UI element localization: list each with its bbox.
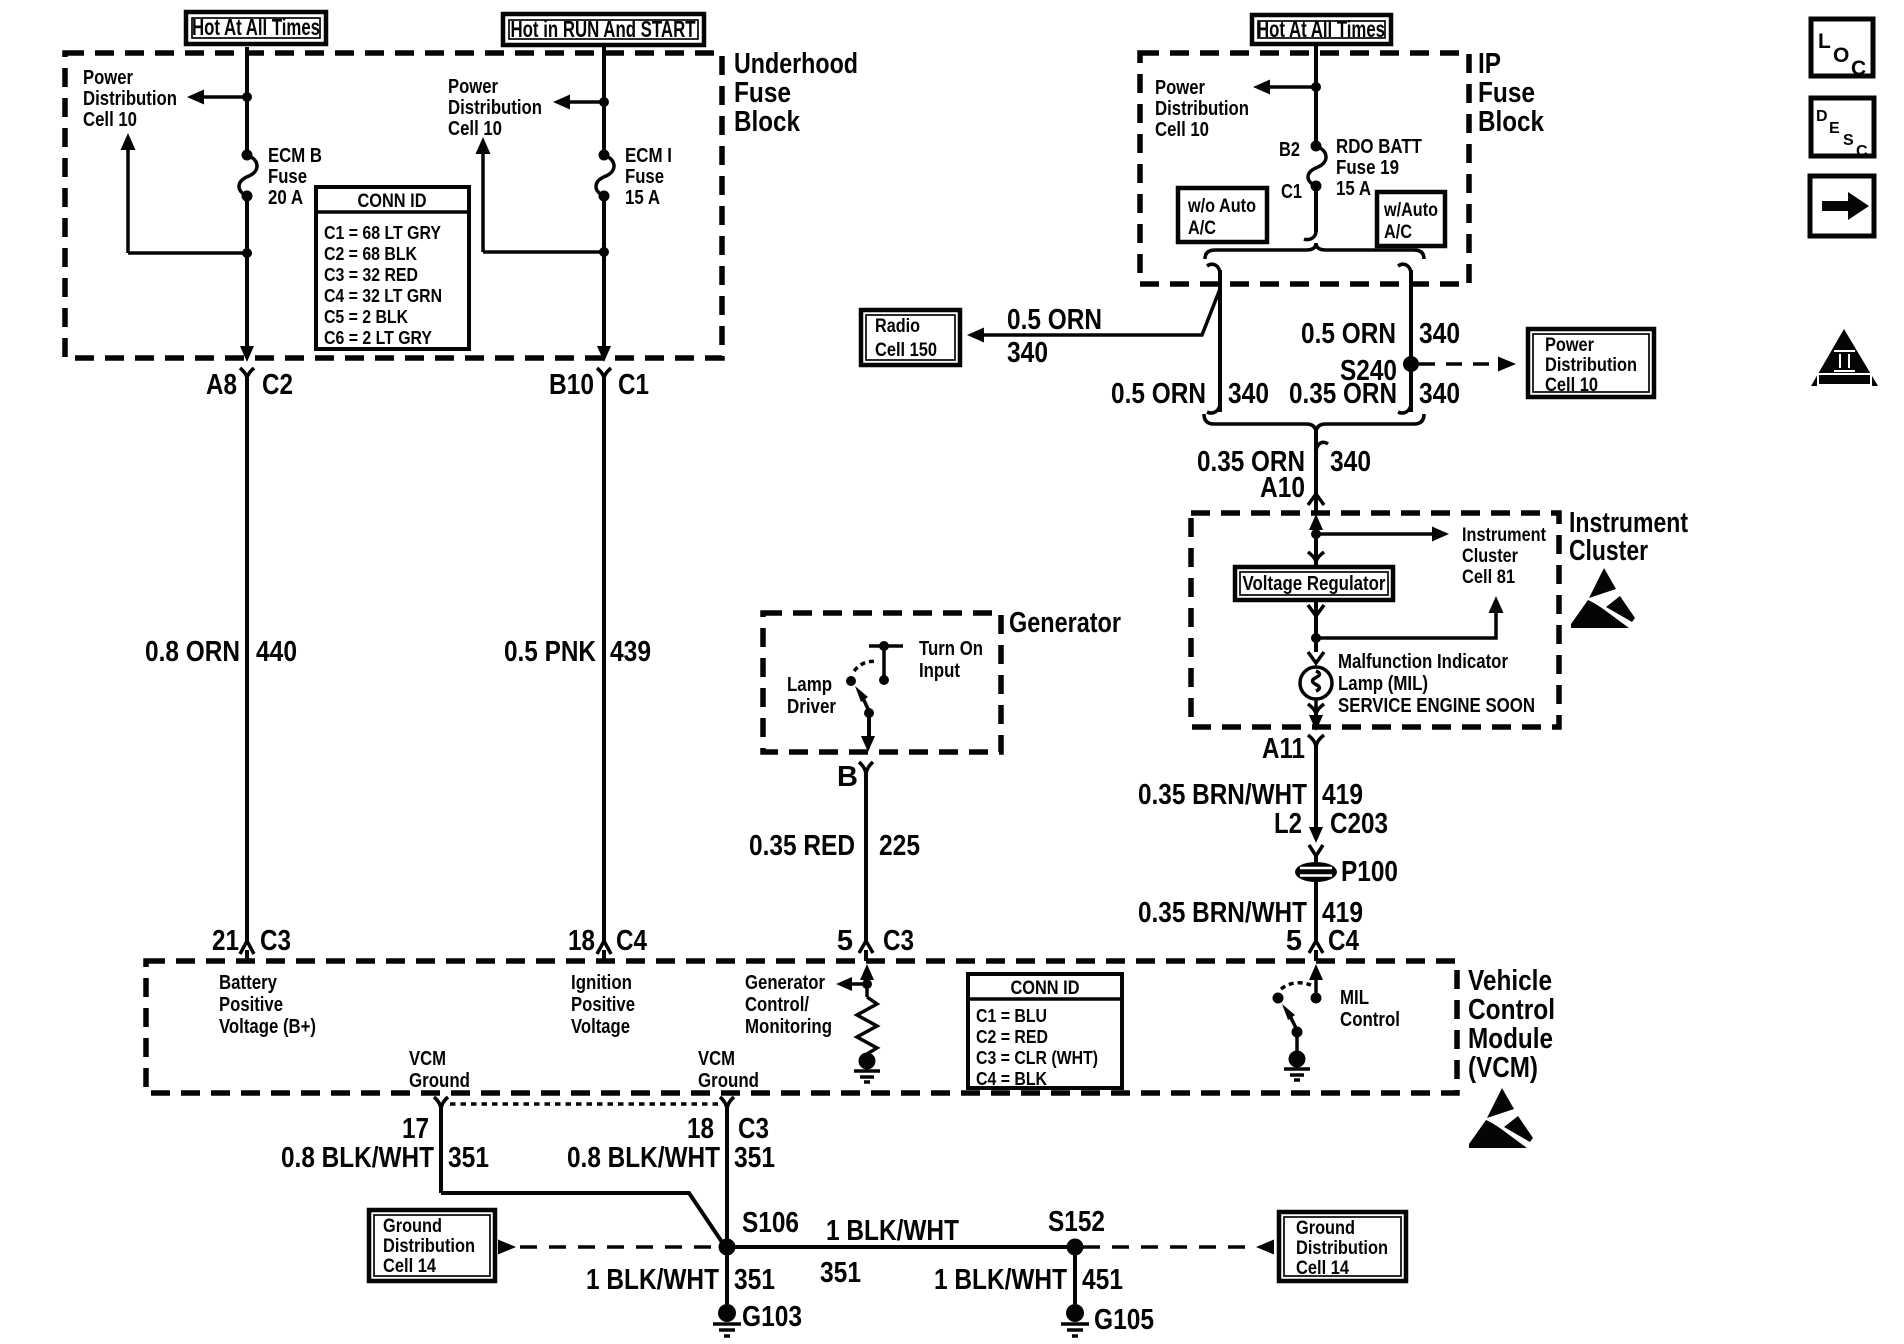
svg-text:0.5 ORN: 0.5 ORN <box>1111 378 1206 410</box>
svg-text:G105: G105 <box>1094 1304 1154 1336</box>
svg-text:15 A: 15 A <box>625 187 660 209</box>
svg-text:Module: Module <box>1468 1023 1553 1055</box>
svg-text:17: 17 <box>402 1113 429 1145</box>
svg-text:C3: C3 <box>738 1113 769 1145</box>
svg-text:CONN ID: CONN ID <box>1011 978 1080 999</box>
svg-text:Cell 10: Cell 10 <box>1545 375 1598 396</box>
svg-text:S106: S106 <box>742 1207 799 1239</box>
svg-text:Hot At All Times: Hot At All Times <box>192 14 320 40</box>
svg-text:C6 = 2 LT GRY: C6 = 2 LT GRY <box>324 328 432 348</box>
svg-text:Distribution: Distribution <box>83 88 177 110</box>
svg-text:Hot in RUN And START: Hot in RUN And START <box>511 16 696 42</box>
svg-text:1 BLK/WHT: 1 BLK/WHT <box>934 1264 1067 1296</box>
svg-text:A10: A10 <box>1260 472 1305 504</box>
svg-text:Voltage (B+): Voltage (B+) <box>219 1016 316 1038</box>
svg-text:B10: B10 <box>549 369 594 401</box>
svg-text:Distribution: Distribution <box>448 97 542 119</box>
svg-text:21: 21 <box>212 925 239 957</box>
svg-text:C4: C4 <box>616 925 647 957</box>
svg-text:439: 439 <box>610 636 651 668</box>
svg-text:C4 = 32 LT GRN: C4 = 32 LT GRN <box>324 286 442 306</box>
svg-text:Control: Control <box>1340 1009 1400 1031</box>
svg-text:419: 419 <box>1322 779 1363 811</box>
svg-text:Power: Power <box>448 76 498 98</box>
svg-text:Turn On: Turn On <box>919 638 983 660</box>
svg-text:5: 5 <box>837 925 853 957</box>
svg-text:Hot At All Times: Hot At All Times <box>1257 16 1385 42</box>
svg-text:Cell 81: Cell 81 <box>1462 567 1515 588</box>
svg-text:C3 = CLR (WHT): C3 = CLR (WHT) <box>976 1048 1098 1068</box>
svg-text:Voltage Regulator: Voltage Regulator <box>1243 573 1386 595</box>
svg-text:(VCM): (VCM) <box>1468 1052 1538 1084</box>
svg-text:MIL: MIL <box>1340 987 1369 1009</box>
svg-text:Generator: Generator <box>745 972 825 994</box>
svg-text:340: 340 <box>1419 378 1460 410</box>
svg-text:20 A: 20 A <box>268 187 303 209</box>
svg-text:w/o Auto: w/o Auto <box>1187 196 1256 217</box>
svg-text:Fuse: Fuse <box>625 166 664 188</box>
svg-text:Battery: Battery <box>219 972 278 994</box>
svg-text:C203: C203 <box>1330 808 1388 840</box>
svg-text:351: 351 <box>734 1142 775 1174</box>
svg-text:Block: Block <box>734 106 801 138</box>
svg-text:225: 225 <box>879 830 920 862</box>
svg-text:Lamp: Lamp <box>787 674 832 696</box>
svg-text:0.35 BRN/WHT: 0.35 BRN/WHT <box>1138 897 1307 929</box>
svg-text:Cell 150: Cell 150 <box>875 340 937 361</box>
svg-text:Distribution: Distribution <box>1155 98 1249 120</box>
svg-text:Power: Power <box>1545 335 1595 356</box>
svg-text:Vehicle: Vehicle <box>1468 965 1552 997</box>
svg-text:351: 351 <box>734 1264 775 1296</box>
svg-text:5: 5 <box>1286 925 1302 957</box>
svg-text:Distribution: Distribution <box>1545 355 1637 376</box>
svg-text:Cell 14: Cell 14 <box>383 1256 436 1277</box>
svg-text:CONN ID: CONN ID <box>358 191 427 212</box>
svg-text:351: 351 <box>820 1257 861 1289</box>
svg-text:351: 351 <box>448 1142 489 1174</box>
svg-text:Distribution: Distribution <box>1296 1238 1388 1259</box>
svg-text:SERVICE ENGINE SOON: SERVICE ENGINE SOON <box>1338 695 1535 717</box>
svg-text:Generator: Generator <box>1009 607 1121 639</box>
svg-text:O: O <box>1833 44 1849 67</box>
svg-text:Cell 10: Cell 10 <box>83 109 137 131</box>
svg-text:A8: A8 <box>206 369 237 401</box>
svg-text:340: 340 <box>1330 446 1371 478</box>
svg-text:Fuse: Fuse <box>1478 77 1535 109</box>
svg-text:Fuse: Fuse <box>734 77 791 109</box>
svg-text:Monitoring: Monitoring <box>745 1016 832 1038</box>
svg-text:Fuse 19: Fuse 19 <box>1336 157 1399 179</box>
svg-text:0.5 ORN: 0.5 ORN <box>1301 318 1396 350</box>
svg-text:Cluster: Cluster <box>1462 546 1519 567</box>
svg-text:1 BLK/WHT: 1 BLK/WHT <box>826 1215 959 1247</box>
svg-text:18: 18 <box>568 925 595 957</box>
svg-text:Ground: Ground <box>383 1216 442 1237</box>
svg-text:Positive: Positive <box>219 994 283 1016</box>
svg-text:Cluster: Cluster <box>1569 535 1648 567</box>
svg-text:S152: S152 <box>1048 1206 1105 1238</box>
svg-text:0.35 RED: 0.35 RED <box>749 830 855 862</box>
svg-text:A11: A11 <box>1262 733 1305 765</box>
svg-text:Instrument: Instrument <box>1462 525 1547 546</box>
svg-text:C3 = 32 RED: C3 = 32 RED <box>324 265 418 285</box>
svg-text:0.5 PNK: 0.5 PNK <box>504 636 596 668</box>
svg-text:Ground: Ground <box>1296 1218 1355 1239</box>
svg-text:E: E <box>1829 120 1840 137</box>
svg-text:IP: IP <box>1478 48 1501 80</box>
svg-text:Power: Power <box>83 67 133 89</box>
svg-text:P100: P100 <box>1341 856 1398 888</box>
svg-text:Cell 10: Cell 10 <box>448 118 502 140</box>
svg-text:Ignition: Ignition <box>571 972 632 994</box>
svg-text:440: 440 <box>256 636 297 668</box>
svg-text:C1 = BLU: C1 = BLU <box>976 1006 1047 1026</box>
svg-text:C1: C1 <box>618 369 649 401</box>
svg-text:0.35 ORN: 0.35 ORN <box>1289 378 1397 410</box>
svg-text:C: C <box>1851 57 1866 80</box>
svg-text:C: C <box>1856 143 1868 160</box>
svg-text:15 A: 15 A <box>1336 178 1371 200</box>
svg-text:Lamp (MIL): Lamp (MIL) <box>1338 673 1428 695</box>
svg-text:451: 451 <box>1082 1264 1123 1296</box>
svg-text:Fuse: Fuse <box>268 166 307 188</box>
svg-text:Cell 14: Cell 14 <box>1296 1258 1349 1279</box>
svg-text:C5 = 2 BLK: C5 = 2 BLK <box>324 307 408 327</box>
svg-text:C3: C3 <box>260 925 291 957</box>
svg-text:Control/: Control/ <box>745 994 809 1016</box>
svg-text:w/Auto: w/Auto <box>1383 200 1438 221</box>
svg-text:340: 340 <box>1419 318 1460 350</box>
svg-text:Power: Power <box>1155 77 1205 99</box>
svg-text:Positive: Positive <box>571 994 635 1016</box>
svg-text:Cell 10: Cell 10 <box>1155 119 1209 141</box>
svg-text:0.35 BRN/WHT: 0.35 BRN/WHT <box>1138 779 1307 811</box>
svg-text:OBD II: OBD II <box>1823 375 1865 387</box>
svg-text:VCM: VCM <box>698 1048 735 1070</box>
svg-text:B: B <box>837 761 858 793</box>
svg-text:B2: B2 <box>1279 139 1300 161</box>
svg-text:Ground: Ground <box>698 1070 759 1092</box>
svg-text:C1 = 68 LT GRY: C1 = 68 LT GRY <box>324 223 441 243</box>
svg-text:Underhood: Underhood <box>734 48 858 80</box>
svg-text:S: S <box>1843 132 1854 149</box>
svg-text:0.5 ORN: 0.5 ORN <box>1007 304 1102 336</box>
svg-text:C4 = BLK: C4 = BLK <box>976 1069 1047 1089</box>
svg-text:G103: G103 <box>742 1301 802 1333</box>
svg-text:L: L <box>1818 30 1831 53</box>
svg-text:C4: C4 <box>1328 925 1359 957</box>
svg-text:ECM B: ECM B <box>268 145 322 167</box>
svg-text:C3: C3 <box>883 925 914 957</box>
svg-text:Block: Block <box>1478 106 1545 138</box>
svg-text:18: 18 <box>687 1113 714 1145</box>
svg-text:RDO BATT: RDO BATT <box>1336 136 1422 158</box>
svg-text:340: 340 <box>1228 378 1269 410</box>
svg-text:Ground: Ground <box>409 1070 470 1092</box>
svg-text:A/C: A/C <box>1188 218 1216 239</box>
svg-text:340: 340 <box>1007 337 1048 369</box>
svg-text:0.8 ORN: 0.8 ORN <box>145 636 240 668</box>
svg-text:D: D <box>1816 108 1828 125</box>
svg-text:L2: L2 <box>1274 808 1302 840</box>
svg-text:C2 = 68 BLK: C2 = 68 BLK <box>324 244 417 264</box>
svg-text:ECM I: ECM I <box>625 145 672 167</box>
svg-text:0.8 BLK/WHT: 0.8 BLK/WHT <box>567 1142 720 1174</box>
svg-text:Distribution: Distribution <box>383 1236 475 1257</box>
svg-text:0.8 BLK/WHT: 0.8 BLK/WHT <box>281 1142 434 1174</box>
svg-text:Input: Input <box>919 660 960 682</box>
svg-text:C1: C1 <box>1281 181 1302 203</box>
svg-text:Voltage: Voltage <box>571 1016 630 1038</box>
svg-text:Driver: Driver <box>787 696 836 718</box>
svg-text:A/C: A/C <box>1384 222 1412 243</box>
svg-text:Malfunction Indicator: Malfunction Indicator <box>1338 651 1508 673</box>
svg-text:Control: Control <box>1468 994 1555 1026</box>
svg-text:C2: C2 <box>262 369 293 401</box>
svg-text:1 BLK/WHT: 1 BLK/WHT <box>586 1264 719 1296</box>
svg-text:VCM: VCM <box>409 1048 446 1070</box>
svg-text:C2 = RED: C2 = RED <box>976 1027 1048 1047</box>
svg-text:Radio: Radio <box>875 316 920 337</box>
